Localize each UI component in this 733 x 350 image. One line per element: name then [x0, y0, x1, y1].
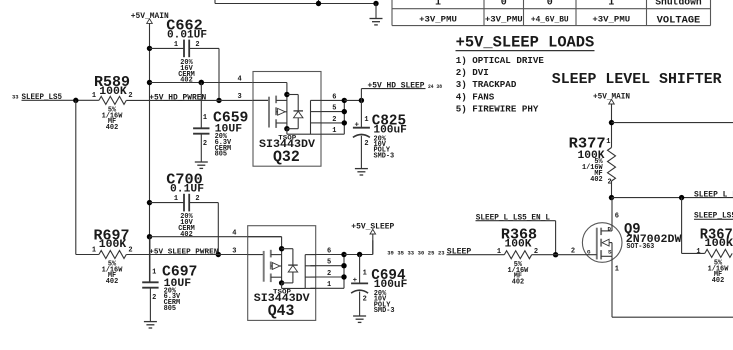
svg-text:402: 402	[180, 77, 192, 85]
svg-text:1: 1	[203, 114, 207, 122]
svg-text:5: 5	[332, 105, 336, 113]
svg-text:23: 23	[438, 249, 445, 256]
svg-text:5: 5	[327, 259, 331, 267]
svg-text:SLEEP_L_LS5_EN_L: SLEEP_L_LS5_EN_L	[476, 215, 551, 223]
svg-text:3) TRACKPAD: 3) TRACKPAD	[456, 79, 517, 90]
svg-text:2: 2	[203, 140, 207, 148]
svg-text:4) FANS: 4) FANS	[456, 91, 495, 102]
svg-text:D: D	[608, 226, 612, 233]
svg-text:+3V_PMU: +3V_PMU	[485, 15, 523, 25]
svg-text:100K: 100K	[99, 239, 127, 251]
svg-text:5) FIREWIRE PHY: 5) FIREWIRE PHY	[456, 104, 539, 115]
svg-text:SMD-3: SMD-3	[374, 307, 395, 315]
svg-text:VOLTAGE: VOLTAGE	[657, 15, 701, 26]
svg-text:+5V_SLEEP_PWREN: +5V_SLEEP_PWREN	[149, 248, 218, 256]
svg-text:Shutdown: Shutdown	[655, 0, 702, 8]
svg-text:100K: 100K	[705, 238, 733, 250]
svg-text:1: 1	[364, 116, 368, 124]
svg-text:SLEEP_LS5: SLEEP_LS5	[22, 94, 63, 102]
svg-text:SMD-3: SMD-3	[374, 152, 395, 160]
svg-text:+3V_PMU: +3V_PMU	[419, 15, 457, 25]
svg-text:0.01UF: 0.01UF	[167, 29, 207, 41]
svg-text:1: 1	[606, 138, 610, 146]
svg-text:+3V_PMU: +3V_PMU	[592, 15, 630, 25]
svg-text:Q43: Q43	[268, 302, 295, 320]
svg-text:0: 0	[501, 0, 507, 8]
svg-text:0.1UF: 0.1UF	[170, 184, 204, 196]
svg-text:+5V_HD_PWREN: +5V_HD_PWREN	[149, 94, 206, 102]
svg-text:4: 4	[232, 230, 236, 238]
svg-text:1: 1	[696, 248, 700, 256]
svg-text:2: 2	[128, 246, 132, 254]
svg-text:2) DVI: 2) DVI	[456, 67, 489, 78]
svg-text:SLEEP_L_LS5_E: SLEEP_L_LS5_E	[694, 192, 733, 200]
svg-text:100K: 100K	[99, 86, 127, 98]
svg-text:805: 805	[164, 305, 176, 313]
svg-text:25: 25	[428, 249, 435, 256]
svg-text:2: 2	[195, 195, 199, 203]
svg-text:1: 1	[152, 268, 156, 276]
svg-text:805: 805	[215, 151, 227, 159]
svg-text:0: 0	[547, 0, 553, 8]
svg-text:1: 1	[174, 195, 178, 203]
svg-text:402: 402	[712, 277, 724, 285]
svg-text:402: 402	[106, 278, 118, 286]
svg-text:6: 6	[332, 93, 336, 101]
svg-text:Q32: Q32	[273, 148, 300, 166]
svg-text:1: 1	[435, 0, 441, 8]
svg-text:2: 2	[332, 116, 336, 124]
svg-text:6: 6	[615, 213, 619, 221]
svg-text:1: 1	[497, 248, 501, 256]
svg-text:2: 2	[152, 294, 156, 302]
svg-text:+: +	[353, 277, 358, 285]
svg-text:6: 6	[327, 247, 331, 255]
svg-text:35: 35	[397, 249, 404, 256]
svg-text:+5V_SLEEP LOADS: +5V_SLEEP LOADS	[456, 33, 595, 51]
svg-text:402: 402	[512, 278, 524, 286]
svg-text:39: 39	[387, 249, 394, 256]
svg-text:4: 4	[237, 75, 241, 83]
svg-text:1: 1	[327, 281, 331, 289]
svg-text:1: 1	[174, 41, 178, 49]
svg-text:2: 2	[195, 41, 199, 49]
svg-text:+: +	[354, 121, 359, 129]
svg-text:33: 33	[408, 249, 415, 256]
svg-text:1: 1	[92, 92, 96, 100]
svg-text:33: 33	[12, 94, 19, 101]
svg-text:3: 3	[232, 247, 236, 255]
svg-text:SLEEP LEVEL SHIFTER: SLEEP LEVEL SHIFTER	[552, 72, 722, 88]
svg-text:402: 402	[180, 231, 192, 239]
svg-text:2: 2	[327, 270, 331, 278]
svg-text:1: 1	[615, 266, 619, 274]
svg-text:1: 1	[363, 269, 367, 277]
svg-text:402: 402	[590, 176, 602, 184]
svg-text:100K: 100K	[504, 238, 531, 250]
svg-text:2: 2	[571, 247, 575, 255]
svg-text:+4_6V_BU: +4_6V_BU	[531, 15, 569, 25]
svg-text:SOT-363: SOT-363	[627, 243, 655, 251]
svg-text:1) OPTICAL DRIVE: 1) OPTICAL DRIVE	[456, 55, 545, 66]
svg-text:3: 3	[237, 93, 241, 101]
svg-text:2: 2	[364, 140, 368, 148]
svg-text:+5V_HD_SLEEP: +5V_HD_SLEEP	[368, 83, 425, 91]
svg-text:2: 2	[363, 295, 367, 303]
svg-text:2: 2	[128, 92, 132, 100]
svg-text:30: 30	[418, 249, 425, 256]
svg-text:402: 402	[106, 124, 118, 132]
svg-text:1: 1	[608, 0, 614, 8]
svg-text:24 38: 24 38	[428, 83, 443, 90]
svg-text:1: 1	[332, 127, 336, 135]
svg-text:1: 1	[92, 246, 96, 254]
